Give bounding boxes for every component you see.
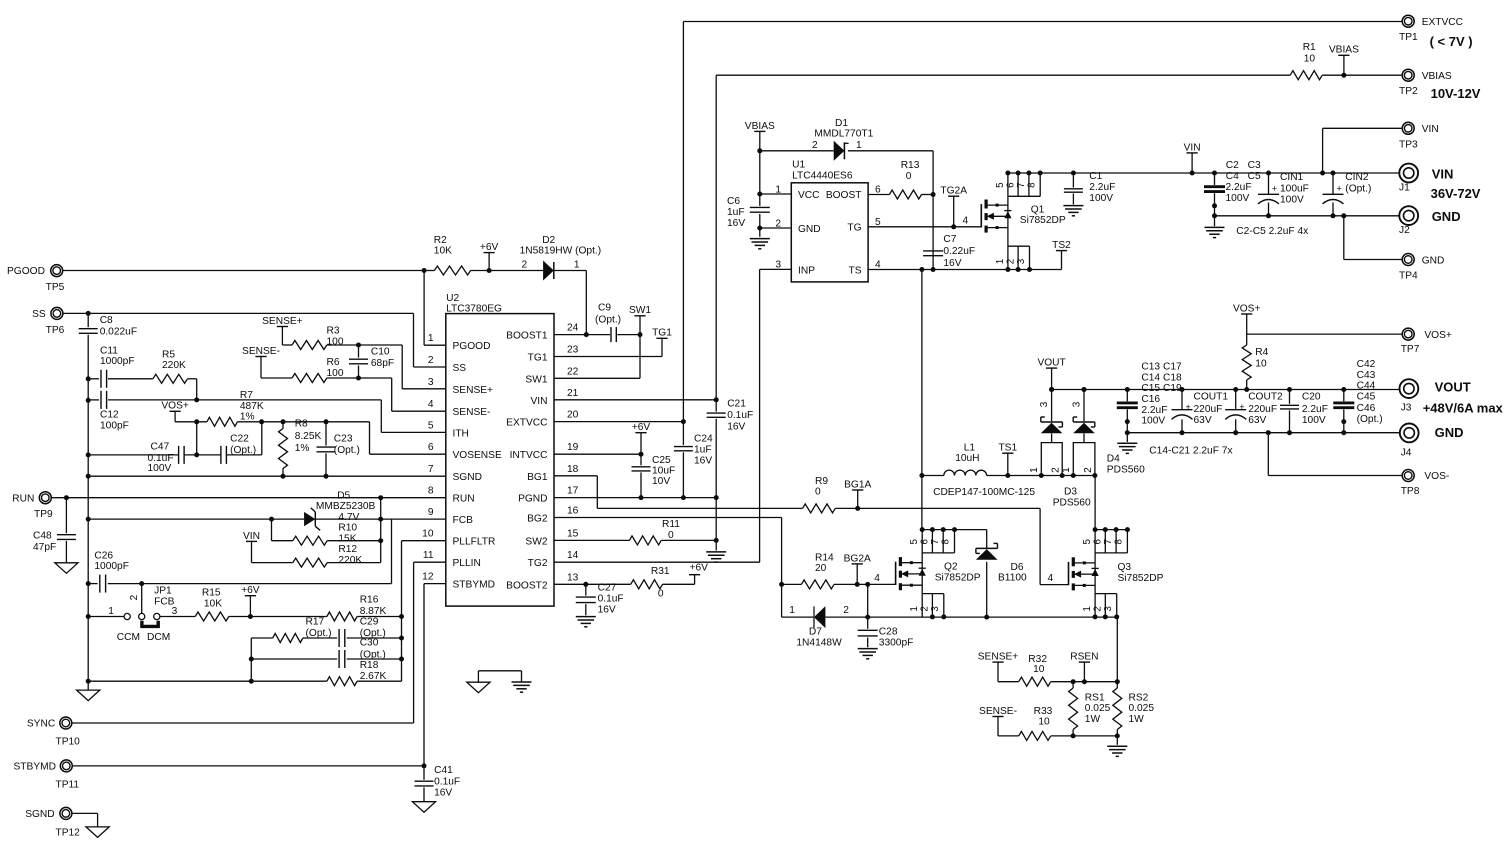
svg-text:BOOST2: BOOST2 bbox=[506, 580, 548, 591]
ground under C16 bbox=[1117, 442, 1137, 444]
wire C30 line bbox=[251, 658, 337, 660]
svg-text:9: 9 bbox=[428, 507, 434, 518]
svg-text:TP4: TP4 bbox=[1399, 271, 1418, 282]
svg-text:SS: SS bbox=[453, 363, 467, 374]
diode D7 1N4148W bbox=[814, 606, 825, 628]
node C1 bbox=[1071, 171, 1076, 176]
wire Q3 source down bbox=[1116, 617, 1118, 682]
wire R6 line bbox=[261, 377, 292, 379]
ground under C27 bbox=[576, 616, 596, 618]
wire D4 vertical bbox=[1083, 390, 1085, 422]
svg-text:DCM: DCM bbox=[147, 632, 170, 643]
test point TP1 bbox=[1402, 15, 1414, 27]
svg-text:0.1uF: 0.1uF bbox=[598, 593, 624, 604]
svg-text:VIN: VIN bbox=[1422, 124, 1439, 135]
node SGND bus bbox=[86, 474, 91, 479]
svg-text:20: 20 bbox=[567, 410, 579, 421]
wire RS2 leads bbox=[1116, 682, 1118, 688]
svg-text:17: 17 bbox=[567, 486, 579, 497]
svg-text:2: 2 bbox=[843, 605, 849, 616]
svg-text:BG2: BG2 bbox=[527, 514, 548, 525]
wire FCB line bbox=[88, 583, 97, 585]
svg-text:3: 3 bbox=[1071, 401, 1082, 407]
node CIN2 bottom bbox=[1331, 213, 1336, 218]
wire RUN line bbox=[51, 497, 445, 499]
svg-text:C15: C15 bbox=[1141, 383, 1160, 394]
svg-text:LTC3780EG: LTC3780EG bbox=[446, 303, 502, 314]
wire INTVCC line bbox=[554, 453, 641, 455]
svg-text:24: 24 bbox=[567, 323, 579, 334]
test point TP9 bbox=[39, 492, 51, 504]
svg-text:220K: 220K bbox=[162, 360, 186, 371]
svg-text:SENSE+: SENSE+ bbox=[262, 316, 303, 327]
wire SGND line bbox=[88, 475, 446, 477]
svg-text:TP1: TP1 bbox=[1399, 32, 1418, 43]
net flag +6V R31 bbox=[689, 574, 700, 576]
svg-text:2: 2 bbox=[812, 140, 818, 151]
svg-text:C13: C13 bbox=[1141, 362, 1160, 373]
svg-text:1: 1 bbox=[995, 259, 1006, 264]
svg-text:R7: R7 bbox=[240, 390, 253, 401]
wire R18 line bbox=[88, 680, 327, 682]
svg-text:C3: C3 bbox=[1248, 160, 1261, 171]
node D3 pins bbox=[1039, 473, 1044, 478]
node CIN2 top bbox=[1331, 171, 1336, 176]
svg-text:GND: GND bbox=[1422, 255, 1445, 266]
svg-text:15K: 15K bbox=[338, 533, 356, 544]
svg-text:2.2uF: 2.2uF bbox=[1302, 404, 1328, 415]
node pin1 stub bbox=[422, 268, 427, 273]
svg-text:SENSE+: SENSE+ bbox=[978, 652, 1019, 663]
wire C10 leads bbox=[358, 345, 360, 358]
net flag VBIAS bbox=[754, 130, 765, 132]
svg-text:C44: C44 bbox=[1357, 381, 1376, 392]
wire C20 leads bbox=[1289, 390, 1291, 404]
resistor R13 bbox=[889, 190, 921, 199]
node C47 line at bus bbox=[86, 452, 91, 457]
capacitor C29 bbox=[338, 629, 340, 647]
diode D1 triangle bbox=[834, 141, 845, 161]
svg-text:STBYMD: STBYMD bbox=[453, 580, 495, 591]
svg-text:8.25K: 8.25K bbox=[295, 431, 322, 442]
svg-text:TP7: TP7 bbox=[1401, 344, 1420, 355]
svg-text:1N5819HW (Opt.): 1N5819HW (Opt.) bbox=[520, 246, 602, 257]
node TS1 bbox=[1005, 473, 1010, 478]
svg-text:(Opt.): (Opt.) bbox=[1345, 183, 1371, 194]
node C29 out bbox=[399, 636, 404, 641]
ground bus triangle bbox=[77, 690, 100, 701]
svg-text:0.1uF: 0.1uF bbox=[434, 777, 460, 788]
node PGND bbox=[639, 495, 644, 500]
svg-text:C29: C29 bbox=[360, 616, 379, 627]
wire D1 cathode to BOOST bbox=[848, 150, 933, 152]
svg-text:C23: C23 bbox=[334, 434, 353, 445]
net flag TS2 bbox=[1056, 250, 1067, 252]
net flag +6V bbox=[484, 252, 495, 254]
svg-text:+: + bbox=[1337, 183, 1342, 193]
diode D4 PDS560 bbox=[1073, 421, 1095, 423]
transistor Q2 package pins 1-3 box bbox=[922, 593, 944, 595]
wire C11-R5 line bbox=[88, 378, 99, 380]
svg-text:10: 10 bbox=[1033, 664, 1045, 675]
svg-text:CIN1: CIN1 bbox=[1280, 172, 1304, 183]
transistor Q1 gate/channel bbox=[980, 204, 982, 227]
svg-text:2: 2 bbox=[129, 594, 140, 600]
capacitor C7 bbox=[923, 250, 943, 252]
ground under TP12 bbox=[86, 827, 109, 838]
wire R2 left lead bbox=[424, 270, 434, 272]
resistor R10 bbox=[293, 536, 327, 545]
node D5 cathode bbox=[378, 517, 383, 522]
node GND out rail bbox=[1180, 430, 1185, 435]
resistor R16 bbox=[327, 612, 357, 621]
svg-text:2: 2 bbox=[1005, 259, 1016, 264]
svg-text:C12: C12 bbox=[100, 410, 119, 421]
test point TP4 bbox=[1402, 254, 1414, 266]
node L1 left bbox=[919, 473, 924, 478]
capacitor C22 bbox=[220, 446, 222, 464]
svg-text:GND: GND bbox=[1435, 425, 1464, 440]
net flag BG2A bbox=[852, 563, 863, 565]
transistor Q3 package pins 1-3 box bbox=[1095, 593, 1117, 595]
node D5 bus bbox=[86, 517, 91, 522]
capacitor C27 bbox=[576, 596, 596, 598]
svg-text:2: 2 bbox=[1093, 606, 1104, 611]
svg-text:SENSE-: SENSE- bbox=[979, 706, 1017, 717]
wire CIN2 leads bbox=[1332, 173, 1334, 194]
node VIN flag bbox=[1190, 171, 1195, 176]
wire TG2 line bbox=[554, 561, 760, 563]
svg-text:100V: 100V bbox=[148, 463, 172, 474]
capacitor C1 bbox=[1064, 188, 1083, 190]
transistor Q2 drain-source rail bbox=[921, 530, 923, 617]
node VOS+ down bbox=[194, 419, 199, 424]
ground under C41 bbox=[412, 802, 435, 813]
wire GND input rail bbox=[1215, 215, 1400, 217]
wire R8 leads bbox=[282, 422, 284, 429]
node R8/C23 gnd bbox=[281, 474, 286, 479]
svg-text:13: 13 bbox=[567, 572, 579, 583]
node VCC bbox=[757, 192, 762, 197]
wire PLLIN net bbox=[414, 561, 446, 563]
node C8 branch bbox=[86, 311, 91, 316]
wire VOS+ line bbox=[1247, 333, 1403, 335]
wire RUN divider vertical bbox=[380, 498, 382, 563]
svg-text:C19: C19 bbox=[1163, 383, 1182, 394]
node RS bottom bbox=[1071, 733, 1076, 738]
resistor R11 bbox=[629, 536, 661, 545]
svg-text:COUT1: COUT1 bbox=[1194, 392, 1229, 403]
wire D5 line bbox=[88, 518, 304, 520]
wire drain-column TS to L1 bbox=[921, 270, 923, 530]
net flag TG2A bbox=[948, 195, 959, 197]
resistor R17 bbox=[273, 634, 303, 643]
transistor Q2 body diode bbox=[919, 567, 926, 569]
svg-text:D4: D4 bbox=[1107, 454, 1120, 465]
svg-text:Q2: Q2 bbox=[944, 562, 958, 573]
svg-text:16V: 16V bbox=[694, 456, 712, 467]
svg-text:23: 23 bbox=[567, 345, 579, 356]
wire R12 line bbox=[252, 562, 293, 564]
wire C23 leads bbox=[325, 422, 327, 446]
svg-text:10K: 10K bbox=[434, 246, 452, 257]
wire C16 leads bbox=[1126, 390, 1128, 402]
test point TP10 bbox=[60, 717, 72, 729]
svg-text:(Opt.): (Opt.) bbox=[230, 445, 256, 456]
svg-text:16V: 16V bbox=[727, 218, 745, 229]
svg-text:VBIAS: VBIAS bbox=[1422, 71, 1452, 82]
svg-text:(Opt.): (Opt.) bbox=[334, 445, 360, 456]
wire R3 line bbox=[282, 344, 292, 346]
svg-text:63V: 63V bbox=[1194, 415, 1212, 426]
node R18 left bbox=[249, 679, 254, 684]
svg-text:C5: C5 bbox=[1248, 171, 1261, 182]
svg-text:100uF: 100uF bbox=[1280, 183, 1309, 194]
svg-text:COUT2: COUT2 bbox=[1248, 392, 1283, 403]
net flag BG1A bbox=[852, 489, 863, 491]
svg-text:6: 6 bbox=[428, 442, 434, 453]
svg-text:Si7852DP: Si7852DP bbox=[1020, 215, 1066, 226]
svg-text:PLLFLTR: PLLFLTR bbox=[453, 537, 496, 548]
svg-text:VOSENSE: VOSENSE bbox=[453, 450, 502, 461]
svg-text:1W: 1W bbox=[1129, 714, 1145, 725]
wire C8 lead bbox=[87, 313, 89, 327]
node C24 top bbox=[681, 419, 686, 424]
svg-text:ITH: ITH bbox=[453, 428, 469, 439]
diode D3 PDS560 bbox=[1041, 421, 1063, 423]
svg-text:VIN: VIN bbox=[243, 531, 260, 542]
svg-text:1: 1 bbox=[856, 140, 862, 151]
net flag RSEN bbox=[1079, 661, 1090, 663]
ground under C28 bbox=[858, 648, 878, 650]
resistor R9 bbox=[803, 504, 836, 513]
svg-text:R15: R15 bbox=[202, 587, 221, 598]
svg-text:TG2A: TG2A bbox=[940, 186, 967, 197]
test point TP5 bbox=[51, 265, 63, 277]
svg-text:STBYMD: STBYMD bbox=[14, 762, 56, 773]
resistor RS2 bbox=[1113, 688, 1122, 730]
wire C21 col to R11 gnd bbox=[715, 498, 717, 541]
resistor R5 bbox=[153, 374, 188, 383]
svg-text:TP9: TP9 bbox=[34, 509, 53, 520]
svg-text:R31: R31 bbox=[651, 566, 670, 577]
svg-text:R11: R11 bbox=[662, 519, 680, 530]
wire C42 leads bbox=[1343, 390, 1345, 402]
svg-text:D2: D2 bbox=[542, 235, 555, 246]
wire BG1 route bbox=[554, 475, 597, 477]
ground under C1 bbox=[1063, 205, 1083, 207]
svg-text:C8: C8 bbox=[100, 315, 113, 326]
svg-text:5: 5 bbox=[428, 420, 434, 431]
capacitor C12 bbox=[100, 391, 102, 409]
svg-text:100: 100 bbox=[327, 336, 344, 347]
svg-text:3: 3 bbox=[172, 606, 178, 617]
svg-text:TP8: TP8 bbox=[1401, 486, 1420, 497]
wire VOSENSE line bbox=[175, 421, 207, 423]
node RUN divider bbox=[378, 495, 383, 500]
wire R14 line bbox=[782, 583, 802, 585]
resistor R2 bbox=[434, 266, 470, 275]
capacitor C10 bbox=[349, 358, 368, 360]
svg-text:R17: R17 bbox=[306, 616, 325, 627]
svg-text:C24: C24 bbox=[694, 434, 713, 445]
net flag +6V bbox=[245, 595, 256, 597]
svg-text:R10: R10 bbox=[338, 523, 357, 534]
wire VOS- branch bbox=[1267, 433, 1269, 476]
svg-text:J1: J1 bbox=[1399, 183, 1410, 194]
svg-text:Q3: Q3 bbox=[1118, 562, 1132, 573]
svg-text:2: 2 bbox=[522, 259, 528, 270]
svg-text:C2-C5 2.2uF 4x: C2-C5 2.2uF 4x bbox=[1236, 226, 1308, 237]
svg-text:VIN: VIN bbox=[531, 396, 548, 407]
svg-text:R3: R3 bbox=[327, 326, 340, 337]
svg-text:3: 3 bbox=[930, 606, 941, 612]
svg-text:+: + bbox=[1186, 402, 1191, 412]
node C26 bus bbox=[86, 581, 91, 586]
svg-text:PDS560: PDS560 bbox=[1053, 497, 1091, 508]
wire RS gnd stub bbox=[1116, 736, 1118, 745]
svg-text:10V-12V: 10V-12V bbox=[1431, 86, 1481, 101]
node C10 top bbox=[356, 343, 361, 348]
svg-text:0.022uF: 0.022uF bbox=[100, 326, 137, 337]
svg-text:VOS+: VOS+ bbox=[1233, 303, 1261, 314]
net flag SW1 bbox=[634, 315, 645, 317]
svg-text:21: 21 bbox=[567, 388, 579, 399]
jumper JP1 shunt bracket bbox=[142, 621, 158, 627]
svg-text:0: 0 bbox=[815, 487, 821, 498]
svg-text:C2: C2 bbox=[1226, 160, 1239, 171]
ground under C48 bbox=[55, 563, 78, 574]
node D4 pins bbox=[1071, 473, 1076, 478]
svg-text:VBIAS: VBIAS bbox=[745, 121, 775, 132]
svg-text:4: 4 bbox=[875, 259, 881, 270]
svg-text:100pF: 100pF bbox=[100, 420, 129, 431]
svg-text:2: 2 bbox=[1050, 467, 1061, 473]
svg-text:R5: R5 bbox=[162, 349, 175, 360]
node C47/C22 bbox=[194, 452, 199, 457]
svg-text:VIN: VIN bbox=[1432, 167, 1454, 182]
svg-text:14: 14 bbox=[567, 550, 579, 561]
wire PLLFLTR net bbox=[402, 540, 446, 542]
net flag VOS+ bbox=[170, 410, 181, 412]
capacitor C21 bbox=[707, 412, 726, 414]
svg-text:D7: D7 bbox=[809, 626, 822, 637]
svg-text:SS: SS bbox=[32, 309, 46, 320]
svg-text:J3: J3 bbox=[1401, 402, 1412, 413]
svg-text:( < 7V ): ( < 7V ) bbox=[1430, 34, 1473, 49]
wire SGND tp12 bbox=[72, 812, 97, 814]
wire R33 line bbox=[998, 735, 1019, 737]
wire TS line bbox=[868, 269, 1061, 271]
resistor R18 bbox=[327, 677, 357, 686]
diode D5 MMBZ5230B bbox=[304, 512, 315, 526]
svg-text:VOS+: VOS+ bbox=[161, 401, 189, 412]
svg-text:PDS560: PDS560 bbox=[1107, 465, 1145, 476]
transistor Q3 drain-source rail bbox=[1094, 530, 1096, 617]
svg-text:12: 12 bbox=[422, 572, 434, 583]
svg-text:10V: 10V bbox=[652, 476, 670, 487]
wire BOOST pin6 bbox=[868, 194, 889, 196]
resistor R8 bbox=[279, 429, 288, 469]
svg-text:SENSE-: SENSE- bbox=[242, 346, 280, 357]
svg-text:SENSE-: SENSE- bbox=[453, 407, 491, 418]
wire R17-C29 bbox=[303, 637, 337, 639]
svg-text:VOUT: VOUT bbox=[1037, 358, 1065, 369]
wire pin1 stub bbox=[423, 271, 425, 346]
svg-text:Q1: Q1 bbox=[1031, 204, 1045, 215]
svg-text:TS1: TS1 bbox=[998, 443, 1017, 454]
net flag +6V bbox=[635, 432, 646, 434]
svg-text:GND: GND bbox=[1432, 209, 1461, 224]
svg-text:D1: D1 bbox=[835, 118, 848, 129]
svg-text:5: 5 bbox=[1082, 539, 1093, 545]
svg-text:INTVCC: INTVCC bbox=[510, 450, 548, 461]
svg-text:J4: J4 bbox=[1401, 447, 1412, 458]
svg-text:C1: C1 bbox=[1089, 171, 1102, 182]
svg-text:U2: U2 bbox=[446, 293, 459, 304]
node R13/boost bbox=[931, 192, 936, 197]
svg-text:TP5: TP5 bbox=[46, 282, 65, 293]
node R18 bus bbox=[86, 679, 91, 684]
net flag TG1 bbox=[656, 337, 667, 339]
svg-text:1: 1 bbox=[789, 605, 795, 616]
node R16 out bbox=[399, 614, 404, 619]
svg-text:+: + bbox=[1272, 183, 1277, 193]
ic U2 LTC3780EG box bbox=[446, 314, 554, 606]
node C27 bbox=[583, 582, 588, 587]
svg-text:6: 6 bbox=[920, 539, 931, 545]
svg-text:SGND: SGND bbox=[453, 472, 482, 483]
wire C48 leads bbox=[65, 498, 67, 534]
svg-text:8: 8 bbox=[428, 486, 434, 497]
svg-text:TG1: TG1 bbox=[652, 328, 672, 339]
resistor R7 bbox=[207, 417, 238, 426]
svg-text:15: 15 bbox=[567, 528, 579, 539]
svg-text:CIN2: CIN2 bbox=[1345, 172, 1369, 183]
svg-text:R2: R2 bbox=[434, 235, 447, 246]
svg-text:2.2uF: 2.2uF bbox=[1226, 182, 1252, 193]
svg-text:C17: C17 bbox=[1163, 362, 1182, 373]
wire C24 leads bbox=[682, 422, 684, 446]
svg-text:1: 1 bbox=[1061, 467, 1072, 473]
capacitor C23 bbox=[317, 446, 336, 448]
svg-text:1: 1 bbox=[574, 259, 580, 270]
svg-text:R12: R12 bbox=[338, 544, 357, 555]
capacitor C20 bbox=[1280, 404, 1299, 406]
svg-text:0: 0 bbox=[668, 530, 674, 541]
svg-text:10uH: 10uH bbox=[955, 453, 979, 464]
wire D4 to Q3 drain bbox=[1094, 475, 1096, 477]
capacitor C6 bbox=[750, 206, 770, 208]
svg-text:3: 3 bbox=[1016, 258, 1027, 264]
net flag TS1 bbox=[1002, 452, 1013, 454]
wire GND stub bbox=[760, 227, 792, 229]
capacitor C24 bbox=[674, 446, 693, 448]
svg-text:1000pF: 1000pF bbox=[94, 561, 129, 572]
wire SGND bus bbox=[87, 335, 89, 690]
svg-text:7: 7 bbox=[428, 464, 434, 475]
svg-text:19: 19 bbox=[567, 442, 579, 453]
wire EXTVCC pin20 line bbox=[554, 421, 683, 423]
wire sgnd-pgnd tie bbox=[478, 670, 521, 672]
svg-text:7: 7 bbox=[1103, 539, 1114, 544]
svg-text:R9: R9 bbox=[815, 476, 828, 487]
svg-text:16: 16 bbox=[567, 506, 579, 517]
wire VIN pin21 line bbox=[554, 399, 716, 401]
svg-text:0.025: 0.025 bbox=[1085, 703, 1111, 714]
wire PGND line bbox=[554, 497, 716, 499]
node CIN1 top bbox=[1266, 171, 1271, 176]
